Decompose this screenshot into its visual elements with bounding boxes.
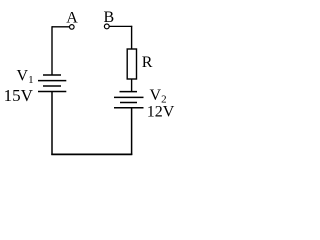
wire from terminal A to left corner — [52, 26, 69, 28]
wire left vertical from battery V1 down to bottom corner — [51, 92, 53, 156]
svg-text:B: B — [103, 9, 114, 26]
battery V2 — [114, 92, 144, 108]
svg-text:R: R — [142, 54, 153, 71]
svg-text:12V: 12V — [147, 104, 175, 121]
wire from resistor to battery V2 — [131, 79, 133, 92]
resistor R — [127, 49, 136, 79]
svg-text:A: A — [66, 9, 78, 26]
wire right vertical down to resistor — [131, 26, 133, 50]
wire from terminal B to right corner — [109, 25, 132, 27]
node A terminal circle — [70, 25, 75, 30]
wire left vertical down to battery V1 — [51, 26, 53, 75]
battery V1 — [38, 75, 66, 92]
wire from battery V2 down to bottom corner — [131, 108, 133, 155]
node B terminal circle — [104, 24, 109, 29]
svg-text:15V: 15V — [4, 86, 34, 105]
bottom wire — [51, 153, 132, 155]
